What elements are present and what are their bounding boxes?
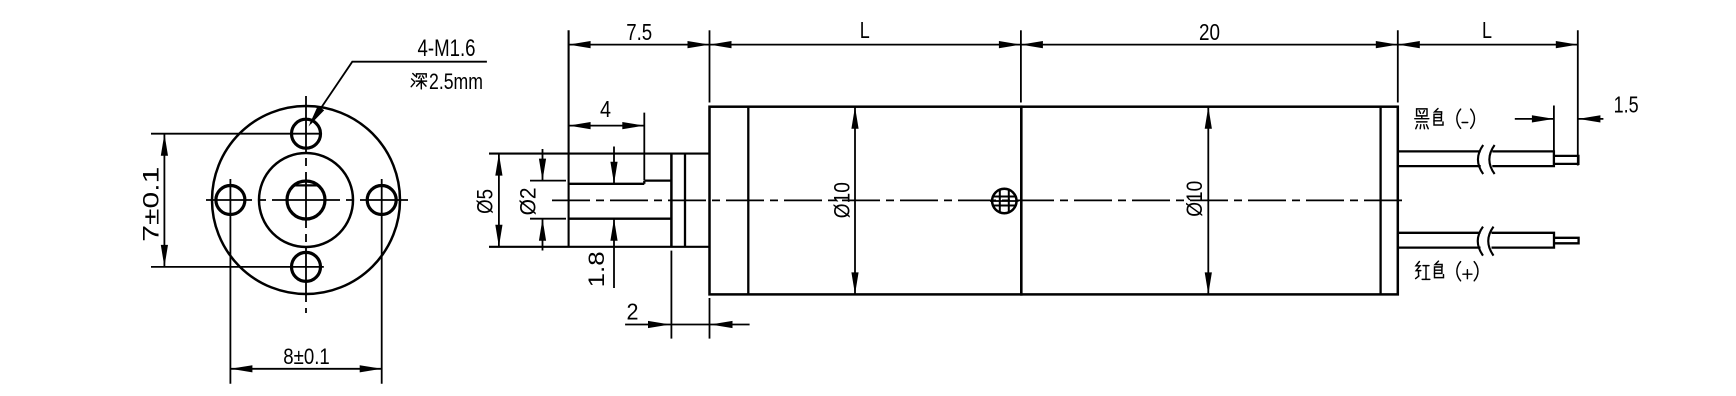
dia2 dim extension ticks xyxy=(530,180,566,182)
svg-text:7.5: 7.5 xyxy=(626,19,652,45)
flange vertical centerline xyxy=(305,96,307,313)
red wire xyxy=(1398,233,1554,248)
mounting hole top xyxy=(292,119,321,148)
svg-text:L: L xyxy=(860,17,870,43)
svg-text:20: 20 xyxy=(1199,19,1220,45)
black wire xyxy=(1398,151,1554,166)
svg-text:1.5: 1.5 xyxy=(1614,92,1639,118)
dim 8+-0.1 extension left xyxy=(229,179,231,384)
svg-text:4-M1.6: 4-M1.6 xyxy=(418,35,476,62)
gearbox front plate line xyxy=(747,107,749,295)
svg-text:1.8: 1.8 xyxy=(584,251,609,287)
dim 8+-0.1 line xyxy=(230,368,381,370)
svg-text:8±0.1: 8±0.1 xyxy=(283,344,330,369)
dim 4 line xyxy=(569,125,645,127)
mounting hole bottom xyxy=(292,252,321,281)
collar bottom line with dia5 extension xyxy=(489,246,710,248)
dia10 dim 1 xyxy=(854,107,856,295)
black wire break marks xyxy=(1478,145,1495,174)
dim 8+-0.1 extension right xyxy=(381,179,383,384)
svg-text:2.5mm: 2.5mm xyxy=(429,69,483,94)
extension gearbox/motor junction up xyxy=(1020,30,1022,102)
svg-text:2: 2 xyxy=(627,299,639,325)
mounting hole left xyxy=(216,186,245,215)
flange horizontal centerline xyxy=(206,199,408,201)
extension motor end up xyxy=(1397,30,1399,102)
svg-text:Ø2: Ø2 xyxy=(516,187,541,215)
label black wire (minus) xyxy=(1415,109,1475,129)
dia2 dim arrows xyxy=(542,149,544,181)
output shaft circle xyxy=(287,181,325,219)
dim 1.8 xyxy=(613,147,615,184)
black wire stripped end xyxy=(1554,156,1579,164)
svg-text:7±0.1: 7±0.1 xyxy=(139,167,164,242)
extension wire end xyxy=(1577,30,1579,165)
bearing collar inner line xyxy=(684,154,686,247)
dim 1.5 arrows xyxy=(1515,118,1554,120)
motor body xyxy=(1021,107,1398,295)
motor end cap line xyxy=(1379,107,1381,295)
dim 1.5 tick xyxy=(1553,106,1555,160)
gearbox body xyxy=(710,107,1022,295)
red wire stripped end xyxy=(1554,238,1579,244)
svg-text:Ø5: Ø5 xyxy=(473,189,498,214)
svg-text:L: L xyxy=(1482,17,1492,43)
leader line 4-M1.6 xyxy=(311,62,487,124)
shaft top line after flat xyxy=(644,179,671,181)
label depth 2.5mm (CJK shen hand-drawn) xyxy=(411,74,426,89)
dim 7+-0.1 line xyxy=(163,134,165,267)
collar top line with dia5 extension xyxy=(489,153,710,155)
dim 4 extension xyxy=(643,113,645,180)
gearbox boss circle xyxy=(259,153,353,247)
dim 2 line xyxy=(625,324,750,326)
red wire break marks xyxy=(1478,227,1494,256)
mounting hole right xyxy=(367,186,396,215)
svg-text:4: 4 xyxy=(600,96,611,122)
bearing collar front edge xyxy=(670,154,673,247)
dim 7+-0.1 extension bottom xyxy=(151,266,324,268)
svg-text:Ø10: Ø10 xyxy=(830,182,855,218)
dim 7+-0.1 extension top xyxy=(151,133,322,135)
side view centerline xyxy=(552,199,1408,201)
screw symbol on motor xyxy=(992,189,1016,213)
shaft flat line xyxy=(569,183,645,185)
extension gearbox face up xyxy=(709,30,711,102)
svg-text:Ø10: Ø10 xyxy=(1182,181,1207,217)
shaft flat chord xyxy=(293,184,320,186)
shaft bottom line xyxy=(569,218,672,220)
screw symbol centerline chord xyxy=(990,200,1019,202)
dia5 dim xyxy=(498,154,500,247)
label red wire (plus) xyxy=(1416,261,1478,281)
dia10 dim 2 xyxy=(1207,107,1209,295)
shaft tip edge with extension xyxy=(568,30,570,247)
flat step xyxy=(643,181,645,184)
flange outer circle xyxy=(212,106,400,294)
top dimension chain line xyxy=(569,44,1578,46)
dim 2 extensions xyxy=(670,251,672,339)
